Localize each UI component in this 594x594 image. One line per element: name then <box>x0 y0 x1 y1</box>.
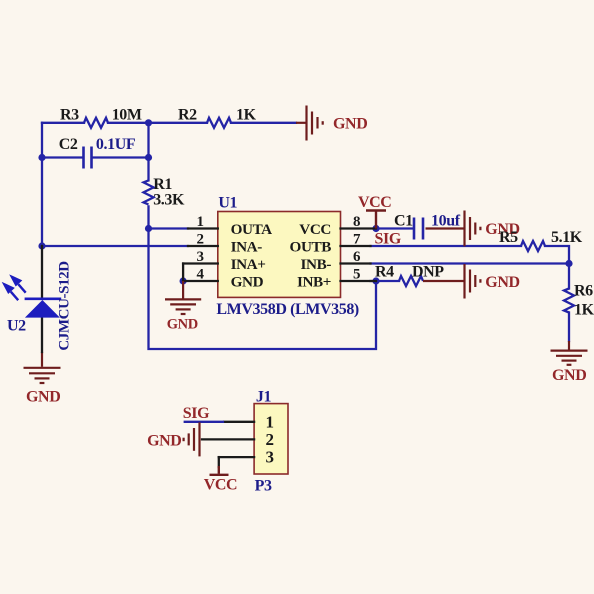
svg-text:7: 7 <box>353 232 361 248</box>
svg-text:VCC: VCC <box>299 221 331 238</box>
svg-text:INA+: INA+ <box>231 256 266 273</box>
svg-text:GND: GND <box>26 389 60 406</box>
svg-text:R3: R3 <box>60 107 79 124</box>
svg-text:R2: R2 <box>178 107 197 124</box>
svg-text:SIG: SIG <box>375 231 402 248</box>
svg-text:INB-: INB- <box>301 256 332 273</box>
svg-text:C2: C2 <box>59 136 78 153</box>
svg-text:4: 4 <box>196 267 204 283</box>
svg-text:GND: GND <box>333 116 367 133</box>
svg-text:GND: GND <box>231 273 264 290</box>
svg-text:1K: 1K <box>236 107 257 124</box>
svg-text:SIG: SIG <box>183 405 210 422</box>
svg-text:1K: 1K <box>574 302 594 319</box>
svg-text:2: 2 <box>265 430 273 449</box>
svg-text:J1: J1 <box>256 389 272 406</box>
svg-text:CJMCU-S12D: CJMCU-S12D <box>57 261 73 351</box>
svg-text:3: 3 <box>265 448 273 467</box>
svg-text:R1: R1 <box>153 176 172 193</box>
svg-text:10uf: 10uf <box>431 213 461 230</box>
svg-text:INA-: INA- <box>231 238 263 255</box>
svg-text:U2: U2 <box>7 318 26 335</box>
svg-text:0.1UF: 0.1UF <box>96 136 136 153</box>
svg-text:R5: R5 <box>499 229 518 246</box>
svg-text:GND: GND <box>167 317 198 333</box>
svg-text:INB+: INB+ <box>297 273 331 290</box>
svg-text:3: 3 <box>196 249 203 265</box>
svg-text:10M: 10M <box>112 107 142 124</box>
svg-text:8: 8 <box>353 214 360 230</box>
svg-text:2: 2 <box>196 232 203 248</box>
svg-text:GND: GND <box>552 367 586 384</box>
svg-text:5: 5 <box>353 267 360 283</box>
svg-text:VCC: VCC <box>358 194 391 211</box>
svg-text:DNP: DNP <box>412 264 444 281</box>
svg-text:OUTA: OUTA <box>231 221 273 238</box>
svg-text:R6: R6 <box>574 283 593 300</box>
svg-text:GND: GND <box>147 433 181 450</box>
svg-text:1: 1 <box>196 214 203 230</box>
svg-text:5.1K: 5.1K <box>551 229 583 246</box>
svg-text:OUTB: OUTB <box>290 238 332 255</box>
svg-text:3.3K: 3.3K <box>153 192 185 209</box>
svg-text:C1: C1 <box>394 213 413 230</box>
svg-text:R4: R4 <box>375 264 394 281</box>
svg-text:GND: GND <box>485 274 519 291</box>
svg-text:P3: P3 <box>255 478 272 495</box>
svg-text:6: 6 <box>353 249 361 265</box>
svg-text:1: 1 <box>265 412 273 431</box>
svg-text:LMV358D (LMV358): LMV358D (LMV358) <box>216 301 359 318</box>
svg-text:U1: U1 <box>218 195 237 212</box>
svg-text:VCC: VCC <box>204 477 237 494</box>
